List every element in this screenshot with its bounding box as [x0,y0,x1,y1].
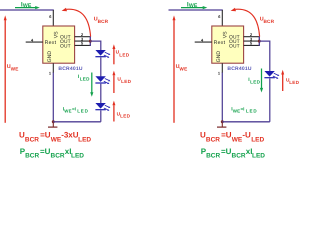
label U_BCR (right) [260,16,275,24]
svg-text:WE: WE [23,3,32,9]
svg-text:WE: WE [233,108,240,113]
svg-text:LED: LED [71,153,84,160]
wire: Rext stub pin 4 (right) [195,41,212,43]
wire: OUT pin 5 (right) [244,44,260,46]
label I_WE (right) [187,1,198,9]
voltage arrow U_BCR (left) [62,8,91,37]
pin label OUT 3 (left) [60,43,71,49]
pin number 6 (VS, left) [49,14,52,19]
pin number 1 (GND, left) [49,70,52,75]
svg-text:Rext: Rext [45,40,57,46]
wire: GND pin (right) [221,63,223,73]
svg-text:BCR401U: BCR401U [58,66,82,72]
wire: D3 to bottom rail (left) [100,110,102,121]
svg-text:WE: WE [64,108,71,113]
pin number 4 (Rext, right) [201,37,204,42]
svg-text:=I: =I [72,106,76,111]
svg-text:=I: =I [241,106,245,111]
pin label Rext (right) [214,40,226,46]
svg-text:LED: LED [121,79,131,84]
svg-text:1: 1 [49,70,52,75]
ground symbol (left) [48,120,57,127]
pin label OUT 2 (right) [229,39,240,45]
svg-text:WE: WE [179,67,187,72]
wire: D2 to D3 (left) [100,84,102,103]
voltage arrow U_LED3 (left) [112,101,115,122]
svg-text:Rext: Rext [214,40,226,46]
svg-text:WE: WE [51,136,62,143]
label U_WE (left) [7,64,19,72]
svg-text:GND: GND [216,51,222,63]
pin label Rext (left) [45,40,57,46]
LED D1 (right) [264,71,279,79]
current arrow I_LED (left) [90,73,93,97]
pin number 2 (right) [250,32,253,37]
label U_BCR (left) [94,16,109,24]
svg-text:BCR: BCR [51,153,65,160]
pin number 5 (right) [250,41,253,46]
wire: OUT bus vertical (right) [258,36,260,46]
svg-text:-3xU: -3xU [61,131,79,140]
svg-text:BCR: BCR [232,153,246,160]
junction dot (left) [89,40,92,43]
pin label VS (left) [53,31,59,38]
pin label GND (right) [216,51,222,63]
LED D1 (left) [95,50,110,58]
part number BCR401U (left) [58,66,82,72]
label U_LED1 (left) [116,50,130,58]
svg-text:LED: LED [119,52,129,57]
pin number 3 (right) [250,36,253,41]
svg-text:BCR: BCR [25,136,39,143]
svg-text:OUT: OUT [229,43,240,49]
wire: junction to LED chain top (left) [90,41,101,50]
wire: OUT pin 5 (left) [75,44,91,46]
svg-text:WE: WE [232,136,243,143]
pin number 3 (left) [81,36,84,41]
formula U_BCR = U_WE - 3xU_LED (left) [19,131,91,144]
voltage arrow U_LED1 (left) [112,44,115,64]
wire: OUT pin 3 (right) [244,40,260,42]
wire: OUT bus vertical (left) [89,36,91,46]
wire: OUT pin 2 (right) [244,36,260,38]
svg-text:6: 6 [49,14,52,19]
IC BCR401U (right) [212,26,244,63]
svg-text:LED: LED [250,80,260,85]
label U_LED (right) [286,78,300,85]
svg-text:BCR401U: BCR401U [227,66,251,72]
pin label VS (right) [222,31,228,38]
svg-text:LED: LED [252,153,265,160]
svg-text:LED: LED [246,108,258,113]
pin label GND (left) [47,51,53,63]
pin number 6 (VS, right) [218,14,221,19]
svg-text:BCR: BCR [206,153,220,160]
label I_LED (left) [78,74,90,82]
svg-text:WE: WE [189,3,198,9]
wire: supply rail VS (left) [0,9,54,11]
wire: bottom return rail (right) [222,121,269,123]
svg-text:WE: WE [11,67,19,72]
wire: GND net down (left) [52,73,54,122]
svg-text:BCR: BCR [264,19,275,24]
svg-text:LED: LED [77,108,89,113]
voltage arrow U_LED (right) [281,70,284,91]
svg-text:LED: LED [80,77,90,82]
label U_LED3 (left) [117,111,131,118]
ground symbol (right) [217,120,226,127]
wire: OUT pin 3 (left) [75,40,91,42]
pin number 2 (left) [81,32,84,37]
wire: GND pin (left) [52,63,54,73]
current arrow I_WE (right) [181,6,207,9]
label I_LED (right) [248,77,260,85]
svg-text:GND: GND [47,51,53,63]
label U_WE (right) [176,64,188,72]
wire: junction to LED chain top (right) [259,41,270,71]
LED D2 (left) [95,76,110,84]
junction dot (right) [258,40,261,43]
label U_LED2 (left) [117,77,131,85]
label I_WE = I_LED (left) [63,106,89,113]
wire: VS pin (right) [221,10,223,26]
svg-text:LED: LED [289,80,299,85]
svg-text:BCR: BCR [25,153,39,160]
wire: OUT pin 2 (left) [75,36,91,38]
svg-text:-U: -U [242,131,251,140]
svg-text:VS: VS [222,31,228,38]
svg-text:LED: LED [251,136,264,143]
voltage arrow U_WE (left) [4,15,7,122]
svg-text:=U: =U [221,131,232,140]
pin number 5 (left) [81,41,84,46]
pin label OUT 2 (left) [60,39,71,45]
formula P_BCR = U_BCR x I_LED (left) [20,147,85,160]
wire: bottom return rail (left) [53,121,101,123]
svg-text:VS: VS [53,31,59,38]
svg-text:OUT: OUT [60,43,71,49]
svg-text:1: 1 [218,70,221,75]
svg-text:LED: LED [120,114,130,119]
formula U_BCR = U_WE - U_LED (right) [200,131,265,144]
pin label OUT 1 (right) [229,35,240,41]
svg-text:BCR: BCR [98,19,109,24]
voltage arrow U_WE (right) [173,15,176,122]
pin label OUT 3 (right) [229,43,240,49]
voltage arrow U_BCR (right) [231,8,260,37]
svg-text:BCR: BCR [206,136,220,143]
svg-text:LED: LED [78,136,91,143]
IC BCR401U (left) [43,26,75,63]
wire: Rext stub pin 4 (left) [26,41,43,43]
LED D3 (left) [95,103,110,111]
wire: LED to bottom rail (right) [269,78,271,121]
pin label OUT 1 (left) [60,35,71,41]
formula P_BCR = U_BCR x I_LED (right) [201,147,266,160]
label I_WE (left) [21,1,32,9]
wire: D1 to D2 (left) [100,57,102,76]
wire: supply rail VS (right) [169,9,223,11]
pin number 1 (GND, right) [218,70,221,75]
svg-text:6: 6 [218,14,221,19]
label I_WE = I_LED (right) [231,106,257,113]
wire: VS pin (left) [52,10,54,26]
svg-text:=U: =U [40,131,51,140]
wire: GND net down (right) [221,73,223,122]
svg-text:=U: =U [40,147,51,156]
svg-text:=U: =U [221,147,232,156]
current arrow I_WE (left) [15,6,40,9]
part number BCR401U (right) [227,66,251,72]
current arrow I_LED (right) [260,69,263,93]
voltage arrow U_LED2 (left) [112,71,115,93]
pin number 4 (Rext, left) [31,37,34,42]
